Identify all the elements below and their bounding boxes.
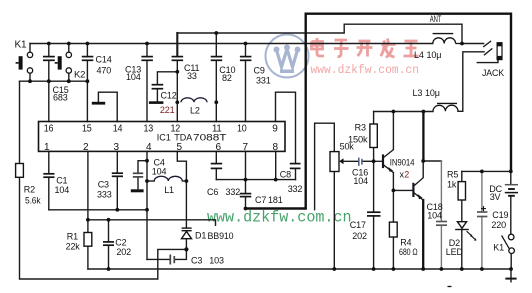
junction C2 rail2	[107, 218, 111, 222]
svg-text:C6: C6	[207, 187, 218, 197]
svg-text:R1: R1	[67, 231, 78, 241]
svg-text:ANT: ANT	[430, 14, 442, 24]
wire: C13 pin13 column	[146, 44, 148, 57]
svg-text:470: 470	[97, 66, 112, 76]
capacitor C16 plates	[359, 158, 362, 166]
wire: K1b bottom stem and ground	[510, 253, 512, 269]
wire: pin16 column	[48, 61, 50, 122]
transistor Q2	[413, 178, 423, 200]
wire: y=111.5 rail	[374, 111, 433, 113]
junction C10 upper line	[214, 31, 218, 35]
capacitor plates (horizontal style)	[43, 57, 487, 265]
svg-text:IN9014: IN9014	[390, 158, 415, 168]
varactor diode D1 BB910	[182, 228, 192, 239]
wire: C17 column	[373, 161, 375, 212]
junction L2 left	[175, 100, 179, 104]
wire: R1 column	[87, 220, 89, 233]
wire: pin4 column	[146, 151, 148, 259]
wire: C9 pin10 column	[245, 44, 247, 57]
capacitor C15	[43, 57, 55, 61]
capacitor C14	[82, 57, 94, 61]
svg-text:IC1: IC1	[157, 133, 171, 143]
wire: rail1 y=209.8	[49, 209, 147, 211]
svg-text:C12: C12	[161, 91, 177, 101]
wire: C11 pin12 column	[176, 33, 178, 56]
main wires group	[20, 33, 512, 279]
发	[381, 39, 396, 58]
switch K1a button	[16, 52, 33, 73]
C19 plus sign	[481, 206, 486, 211]
junction pin8 net	[274, 178, 278, 182]
svg-text:C7: C7	[255, 195, 266, 205]
capacitor C13	[141, 57, 153, 61]
wire: Q1 collector	[392, 112, 394, 150]
svg-text:C8: C8	[280, 170, 291, 180]
junction L2 right C10	[214, 100, 218, 104]
svg-text:C14: C14	[96, 55, 112, 65]
svg-text:104: 104	[55, 185, 70, 195]
capacitor C10	[211, 57, 223, 61]
wire: C2 column	[108, 220, 110, 242]
svg-text:1: 1	[44, 142, 50, 153]
capacitor C1	[43, 174, 54, 177]
svg-text:10μ: 10μ	[425, 88, 440, 98]
watermark red chinese characters	[312, 38, 419, 58]
wire: R3 column	[373, 112, 375, 125]
wire: pin2 column	[87, 151, 89, 219]
svg-text:14: 14	[113, 123, 123, 134]
svg-text:104: 104	[152, 167, 167, 177]
junction R1 rail2	[86, 218, 90, 222]
电	[312, 38, 325, 56]
junction Q2 emitter ground rail	[421, 267, 425, 271]
capacitor C19 electrolytic	[477, 212, 487, 217]
junction C15 lower wire	[47, 79, 51, 83]
resistor R1	[84, 233, 92, 247]
junction C9 top rail	[244, 42, 248, 46]
svg-text:683: 683	[53, 93, 68, 103]
thick V+ and frame wires	[246, 14, 512, 209]
wire: C4 branch	[138, 161, 147, 173]
svg-text:1k: 1k	[447, 180, 457, 190]
junction Q2 collector C18	[421, 159, 425, 163]
svg-text:www.dzkfw.com.cn: www.dzkfw.com.cn	[311, 64, 420, 77]
transistor Q1	[374, 150, 394, 173]
wire: 50k bottom	[333, 172, 335, 270]
wire: pin6 to C6	[215, 151, 217, 163]
svg-text:BB910: BB910	[208, 231, 234, 241]
C12 trimmer bar	[149, 101, 164, 104]
svg-text:680 Ω: 680 Ω	[399, 247, 418, 257]
junction Q1 collector rail	[392, 110, 396, 114]
svg-text:K2: K2	[74, 70, 85, 81]
wire: pin8	[275, 151, 277, 179]
junction C18 ground rail	[440, 267, 444, 271]
capacitor C9	[240, 57, 252, 61]
ground symbol right	[505, 278, 516, 280]
IC U1 TDA7088T box	[39, 122, 286, 152]
svg-text:R5: R5	[447, 169, 458, 179]
potentiometer 50k box	[330, 152, 339, 172]
wire: C10 pin11 column	[215, 33, 217, 56]
svg-text:220: 220	[491, 220, 506, 230]
svg-text:TDA: TDA	[174, 133, 192, 143]
svg-text:8: 8	[273, 142, 279, 153]
junction thick link rail	[422, 110, 426, 114]
svg-text:R3: R3	[355, 123, 366, 133]
resistor R4	[389, 222, 397, 237]
svg-text:13: 13	[144, 123, 154, 134]
wire: thick Q2 emitter column	[422, 200, 424, 269]
svg-text:C3: C3	[191, 255, 202, 265]
wire: V+ thick rail from C7	[246, 14, 512, 209]
wire: pin1 C1 column	[48, 151, 50, 173]
junction C12 tap	[175, 70, 179, 74]
node A R3 C16 C17 Q1 base	[372, 159, 376, 163]
wire: R4 column	[392, 190, 394, 222]
wire: lower left rail y=81.2	[20, 80, 88, 82]
junction L1 left	[145, 179, 149, 183]
junction C2 ground rail	[107, 267, 111, 271]
crossing no-dot	[176, 43, 178, 45]
svg-text:3V: 3V	[490, 192, 501, 202]
wire: R5 column	[461, 171, 463, 181]
wire: C14 pin15 column	[86, 44, 88, 57]
svg-text:C9: C9	[254, 66, 265, 76]
junction ANT L4 jack	[460, 42, 464, 46]
wire: rail2 y=219.8	[88, 220, 216, 226]
svg-text:C17: C17	[350, 220, 366, 230]
svg-text:K1: K1	[493, 243, 504, 253]
svg-text:33: 33	[187, 71, 197, 81]
svg-text:221: 221	[160, 105, 175, 115]
switch K2 button	[55, 52, 72, 73]
wire: C3b to D1 dot	[175, 249, 187, 259]
misc minus mark	[448, 286, 452, 288]
wire: L1 stubs	[147, 180, 154, 182]
wire: battery stem	[510, 171, 512, 184]
wire: Q2 base link	[393, 189, 412, 191]
wire: jack tip line	[462, 43, 484, 45]
wire: wiper C16 link	[343, 160, 358, 162]
wire: C19 column	[481, 171, 483, 211]
capacitor C4 plates	[133, 173, 143, 177]
watermark W logo	[266, 35, 309, 78]
svg-text:103: 103	[209, 255, 224, 265]
svg-text:202: 202	[116, 247, 131, 257]
inductor L1	[154, 176, 182, 181]
switch K1b	[502, 234, 515, 253]
inductor L2	[181, 98, 207, 103]
junction pin4 rail1	[145, 208, 149, 212]
junction C7 Vplus rail	[244, 207, 248, 211]
wire: K2 stubs	[68, 44, 70, 53]
svg-text:22k: 22k	[66, 242, 81, 252]
junction C14 top rail	[86, 42, 90, 46]
wire: thick V-link above Q2	[422, 112, 424, 162]
svg-text:2: 2	[404, 170, 409, 180]
thick Q2 column	[422, 112, 424, 270]
svg-text:C19: C19	[492, 210, 508, 220]
wire: jack contact ticks	[484, 41, 491, 46]
inductor L4 with core bar	[433, 34, 462, 44]
王(网)	[404, 41, 419, 56]
svg-text:181: 181	[268, 195, 283, 205]
svg-text:333: 333	[97, 189, 112, 199]
capacitor C18	[436, 222, 447, 226]
wire: C12 branch	[157, 72, 177, 85]
capacitor C6	[211, 164, 223, 169]
junction C19 top	[480, 170, 484, 174]
svg-text:L3: L3	[413, 88, 423, 98]
svg-text:15: 15	[82, 123, 92, 134]
svg-text:www.dzkfw.com.cn: www.dzkfw.com.cn	[207, 209, 352, 227]
svg-text:L1: L1	[164, 185, 174, 195]
svg-text:10μ: 10μ	[427, 50, 442, 60]
junction pin7 net	[244, 178, 248, 182]
wire: D2 bottom	[461, 230, 463, 269]
svg-text:104: 104	[427, 211, 442, 221]
svg-text:5.6k: 5.6k	[25, 196, 41, 206]
svg-text:332: 332	[226, 187, 241, 197]
wire: K1a stubs	[29, 44, 31, 53]
pin numbers bottom row	[44, 142, 279, 153]
svg-text:82: 82	[222, 73, 232, 83]
svg-text:16: 16	[44, 123, 54, 134]
svg-text:202: 202	[352, 231, 367, 241]
capacitor C3	[112, 173, 123, 176]
jack plug body	[497, 43, 502, 60]
junction C14 pin15	[86, 79, 90, 83]
junction K1 lower wire	[28, 79, 32, 83]
svg-text:2: 2	[83, 142, 89, 153]
junction pot ground rail	[332, 267, 336, 271]
wire: C6 C8 pin8 net y=179.6	[216, 179, 295, 181]
svg-text:R2: R2	[24, 184, 35, 194]
wire: top rail y=43.5	[30, 43, 433, 45]
svg-text:5: 5	[177, 142, 183, 153]
junction Q1 emitter Q2 base	[392, 189, 396, 193]
开	[357, 41, 373, 57]
battery DC 3V	[505, 185, 518, 196]
wire: main bottom rail	[88, 268, 511, 270]
wire: pin14 ground link	[98, 92, 117, 121]
junction C15 top rail	[47, 42, 51, 46]
wire: Q2 collector	[422, 161, 424, 178]
子	[334, 40, 349, 57]
capacitor C7	[240, 194, 252, 197]
svg-text:331: 331	[256, 76, 271, 86]
svg-text:D1: D1	[195, 231, 206, 241]
svg-text:C3: C3	[98, 180, 109, 190]
wire: R5 C19 battery rail y=171.4	[462, 170, 511, 172]
junction K1b ground rail	[509, 267, 513, 271]
svg-text:9: 9	[272, 123, 278, 134]
svg-text:332: 332	[288, 184, 303, 194]
C4 ground bar	[131, 189, 144, 192]
capacitor C17	[367, 212, 381, 216]
potentiometer wiper arrow	[339, 158, 343, 164]
junction K2 top rail	[67, 42, 71, 46]
resistor R3	[370, 124, 377, 148]
wire: pin5 jog	[177, 151, 186, 181]
svg-text:7088T: 7088T	[193, 133, 227, 143]
svg-text:10: 10	[237, 123, 247, 134]
capacitor C3b horizontal plates	[170, 255, 174, 265]
wire: Q1 emitter down	[392, 173, 394, 191]
capacitor C2	[103, 242, 114, 245]
wire: jack sleeve tab	[477, 60, 498, 63]
LED D2	[455, 222, 476, 241]
junction D1 anode node	[184, 247, 188, 251]
resistor R5	[458, 182, 465, 200]
svg-text:104: 104	[353, 176, 368, 186]
resistor R2	[16, 164, 24, 178]
svg-text:L4: L4	[414, 50, 424, 60]
junction battery plus	[509, 170, 513, 174]
wire: ANT link	[306, 24, 462, 43]
svg-text:104: 104	[126, 72, 141, 82]
svg-text:LED: LED	[446, 247, 464, 257]
wire: R2 left column	[19, 81, 21, 163]
junction C4 tap	[145, 159, 149, 163]
svg-text:C1: C1	[56, 176, 67, 186]
capacitor C11	[172, 57, 184, 61]
junction R4 ground rail	[392, 267, 396, 271]
svg-text:3: 3	[114, 142, 120, 153]
thick bars	[92, 103, 164, 191]
junction C19 ground rail	[480, 267, 484, 271]
capacitor C8	[290, 164, 301, 169]
pin numbers top row	[44, 123, 278, 134]
right block wires	[306, 24, 511, 282]
ground bar pin14	[92, 102, 105, 105]
wire: C18 link	[423, 160, 441, 162]
junction L1 right pin5	[185, 179, 189, 183]
wire: upper C11 line y=33	[177, 32, 306, 34]
svg-text:C2: C2	[115, 238, 126, 248]
wire: pin9 loop to C8	[276, 92, 296, 163]
inductor L3 with core bar	[433, 103, 458, 111]
svg-text:7: 7	[243, 142, 249, 153]
svg-text:50k: 50k	[340, 142, 355, 152]
svg-text:6: 6	[216, 142, 222, 153]
wire: pin7 C7 column	[245, 151, 247, 193]
svg-text:L2: L2	[190, 106, 200, 116]
junction C13 top rail	[145, 42, 149, 46]
wire: D1 column	[185, 181, 187, 228]
capacitor C12 plates	[152, 85, 164, 89]
wire: pin3 C3 column	[116, 151, 118, 173]
junction C3 rail1	[115, 208, 119, 212]
junction K2 lower wire	[67, 79, 71, 83]
svg-text:R4: R4	[400, 237, 411, 247]
svg-text:JACK: JACK	[482, 68, 504, 78]
svg-text:4: 4	[146, 142, 152, 153]
svg-text:K1: K1	[15, 40, 28, 51]
junction C17 ground rail	[372, 267, 376, 271]
wire: 50k top link	[315, 123, 335, 210]
junction D2 ground rail	[460, 267, 464, 271]
wire: L3 right link to jack	[458, 52, 484, 112]
